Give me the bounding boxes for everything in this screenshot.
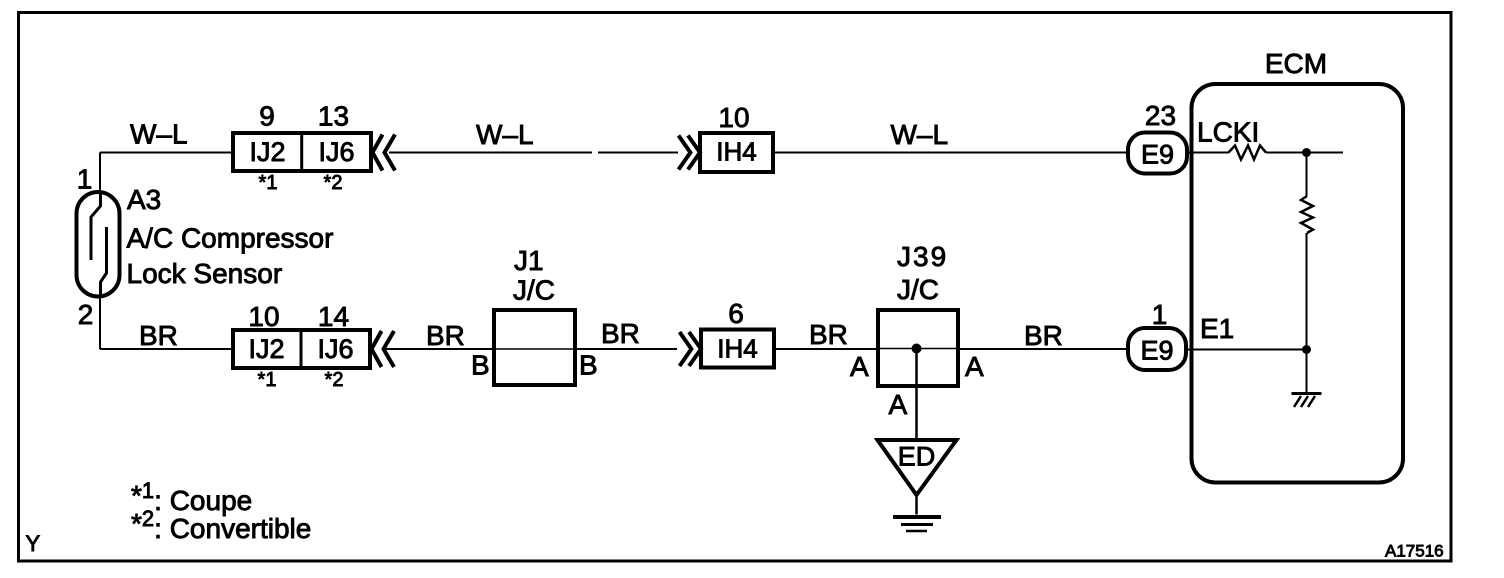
svg-text:IJ6: IJ6 (318, 137, 354, 167)
svg-text:1: 1 (1152, 299, 1168, 330)
wire through J39 (878, 348, 958, 350)
wire node down to resistor (1306, 153, 1308, 197)
svg-text:10: 10 (248, 301, 279, 332)
svg-text:A3: A3 (127, 184, 161, 215)
svg-text:J1: J1 (514, 245, 544, 276)
svg-text:23: 23 (1145, 100, 1176, 131)
svg-text:A/C Compressor: A/C Compressor (127, 223, 334, 254)
chassis ground bar (1292, 392, 1322, 395)
wire triangle apex to ground (915, 495, 918, 515)
connector chevrons after top IJ6 (373, 135, 396, 171)
connector E9 top oval (1128, 133, 1187, 174)
wire sensor pin2 vertical (99, 296, 101, 349)
wire J1 to IH4 (575, 348, 677, 350)
connector IJ2/IJ6 bottom box (233, 330, 370, 368)
wire node to chassis ground (1306, 350, 1308, 394)
resistor vertical (internal) (1301, 196, 1313, 233)
svg-text:ED: ED (898, 442, 936, 472)
ground symbol ED line 1 (893, 515, 941, 519)
connector chevrons before bottom IH4 (680, 332, 702, 366)
svg-text:B: B (579, 350, 598, 381)
svg-text:J/C: J/C (513, 275, 555, 306)
svg-text:BR: BR (426, 320, 465, 351)
node junction dot J39 (912, 344, 922, 354)
svg-text:10: 10 (718, 102, 749, 133)
sensor A3 internal element left bar (91, 193, 101, 260)
wire bottom-left horizontal to IJ2 (100, 348, 233, 350)
svg-text:14: 14 (318, 301, 349, 332)
wire top-left horizontal to IJ2 (100, 152, 233, 154)
svg-text:B: B (471, 350, 490, 381)
wire to J1 (385, 348, 494, 350)
connector chevrons after bottom IJ6 (372, 331, 395, 367)
svg-text:IJ6: IJ6 (317, 334, 353, 364)
svg-text:BR: BR (1024, 320, 1063, 351)
svg-text:2: 2 (78, 299, 94, 330)
sensor A3 capsule body (77, 192, 120, 297)
svg-text:*2: *2 (324, 172, 343, 194)
svg-text:BR: BR (139, 320, 178, 351)
connector IJ2/IJ6 top box (233, 133, 371, 171)
wire IH4 to J39 (774, 348, 878, 350)
wire E1 to node (1186, 349, 1307, 351)
svg-text:W–L: W–L (130, 119, 188, 150)
connector IH4 top box (700, 133, 773, 172)
svg-text:Lock Sensor: Lock Sensor (127, 258, 283, 289)
wire E9 to resistor (1187, 152, 1229, 154)
connector IJ2/IJ6 top divider (300, 133, 303, 171)
svg-text:E1: E1 (1200, 313, 1234, 344)
svg-text:*2: *2 (325, 369, 344, 391)
svg-text:A17516: A17516 (1385, 542, 1444, 561)
svg-text:W–L: W–L (476, 119, 534, 150)
wire through J1 (494, 348, 575, 350)
wire resistor to node (1266, 152, 1343, 154)
junction connector J1 box (494, 310, 575, 385)
svg-text:E9: E9 (1140, 336, 1173, 366)
sensor A3 internal element right bar (101, 227, 107, 296)
node junction dot top (1302, 148, 1311, 157)
svg-text:J/C: J/C (897, 274, 939, 305)
chassis ground hatches (1294, 396, 1315, 407)
svg-text:IJ2: IJ2 (248, 334, 284, 364)
connector chevrons before top IH4 (679, 136, 701, 170)
svg-text:IJ2: IJ2 (249, 137, 285, 167)
wire sensor pin1 vertical (99, 153, 101, 193)
wire J39 node down to ED (915, 349, 918, 441)
connector E9 bottom oval (1128, 328, 1186, 370)
svg-text:13: 13 (318, 101, 349, 132)
wire top middle (389, 152, 678, 154)
svg-text:A: A (965, 351, 984, 382)
wire top right (773, 152, 1128, 154)
resistor horizontal (LCKI pull-up lead) (1229, 146, 1267, 160)
svg-text:Y: Y (26, 531, 41, 556)
ECM box (1192, 84, 1404, 483)
node junction dot bottom (1302, 345, 1311, 354)
svg-text:9: 9 (259, 101, 275, 132)
svg-text:IH4: IH4 (716, 137, 756, 167)
wire resistor to bottom node (1306, 233, 1308, 350)
ground triangle ED (878, 440, 957, 495)
svg-text:BR: BR (809, 319, 848, 350)
ground symbol ED line 2 (901, 523, 933, 526)
connector IJ2/IJ6 bottom divider (300, 330, 303, 368)
svg-text:A: A (850, 351, 869, 382)
svg-text:J39: J39 (897, 241, 948, 272)
svg-text:6: 6 (728, 298, 744, 329)
svg-text:E9: E9 (1141, 140, 1174, 170)
svg-text:IH4: IH4 (717, 334, 757, 364)
svg-text:W–L: W–L (891, 119, 949, 150)
svg-text:1: 1 (77, 164, 93, 195)
svg-text:BR: BR (601, 318, 640, 349)
connector IH4 bottom box (701, 330, 774, 368)
ground symbol ED line 3 (906, 530, 927, 533)
svg-text:LCKI: LCKI (1197, 117, 1259, 148)
wire J39 to E9 (958, 348, 1128, 350)
svg-text:*1: *1 (258, 369, 277, 391)
junction connector J39 box (878, 310, 958, 386)
svg-text:*1: *1 (259, 172, 278, 194)
svg-text:ECM: ECM (1265, 48, 1327, 79)
svg-text:A: A (889, 389, 908, 420)
